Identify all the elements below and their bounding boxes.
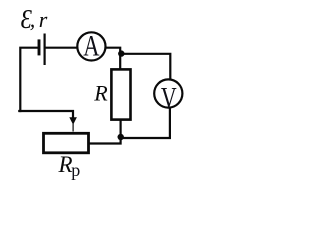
svg-text:V: V: [161, 81, 177, 114]
svg-text:R: R: [58, 152, 73, 177]
svg-text:p: p: [71, 160, 80, 180]
svg-text:R: R: [93, 81, 108, 106]
svg-text:,: ,: [30, 7, 36, 32]
svg-text:r: r: [39, 7, 48, 32]
svg-text:A: A: [83, 28, 99, 62]
